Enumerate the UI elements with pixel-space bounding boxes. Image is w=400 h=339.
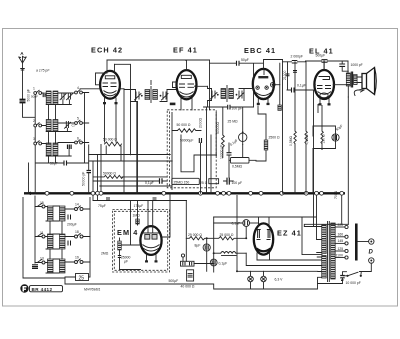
svg-text:110V: 110V	[336, 253, 344, 257]
transformer left connections	[304, 224, 348, 226]
EM4 shield dashed box	[113, 210, 170, 273]
resistor 0,5M ohm vertical (AVC line)	[289, 90, 297, 193]
svg-text:M/4769/B1: M/4769/B1	[84, 288, 101, 292]
capacitor 50pF	[36, 161, 88, 166]
heater winding	[322, 256, 327, 279]
svg-text:µF: µF	[124, 260, 128, 264]
bottom heater return lines	[65, 277, 322, 289]
filter choke	[214, 252, 247, 256]
svg-text:BR 4412: BR 4412	[32, 287, 53, 292]
switch row 2	[33, 119, 42, 127]
svg-text:19: 19	[75, 256, 79, 260]
capacitor 500uF (EL41 grid top)	[306, 54, 349, 63]
lower waveband coil block	[23, 196, 90, 284]
coil L5	[46, 143, 51, 156]
antenna A	[19, 51, 26, 99]
svg-text:1: 1	[33, 87, 35, 91]
svg-text:EL 41: EL 41	[309, 47, 334, 56]
capacitor 100uF (cathode)	[224, 178, 243, 185]
full-wave rectifier tube EZ41	[254, 218, 273, 261]
vertical feeders below bus	[23, 196, 65, 284]
svg-text:14: 14	[75, 203, 79, 207]
svg-text:50000Ω: 50000Ω	[216, 122, 220, 134]
trimmer right	[238, 91, 245, 99]
main ground bus	[24, 192, 345, 194]
svg-text:D: D	[369, 250, 374, 256]
loudspeaker	[354, 68, 376, 96]
svg-text:6: 6	[77, 137, 79, 141]
svg-text:10000 µF: 10000 µF	[220, 145, 224, 159]
potentiometer block component	[181, 257, 214, 266]
capacitor 100uF (IF2)	[204, 105, 254, 111]
pilot lamp 1	[248, 271, 254, 289]
IF transformer 2	[196, 86, 253, 108]
terminal circle DM	[181, 254, 184, 257]
coil L4	[53, 120, 58, 132]
capacitor 8uF circled	[195, 244, 211, 252]
svg-text:25: 25	[79, 276, 85, 282]
coil L10	[60, 234, 66, 249]
svg-text:a 175 pF: a 175 pF	[36, 69, 50, 73]
double-diode-triode tube EBC41	[253, 69, 282, 111]
capacitor block row3	[68, 145, 72, 150]
heater 6.3V line	[236, 196, 318, 282]
coil L9	[48, 234, 54, 249]
svg-text:2: 2	[33, 119, 35, 123]
capacitor 2000pF + label	[283, 55, 306, 194]
resistor box 25 (bottom left)	[65, 262, 90, 282]
bottom-left maker logo	[20, 284, 62, 292]
HT line y=217	[214, 196, 322, 255]
svg-text:50 000 Ω: 50 000 Ω	[103, 138, 117, 142]
antenna series capacitor 5000pF	[20, 89, 36, 117]
coil L6	[53, 143, 58, 156]
coil L8	[60, 206, 66, 221]
output transformer	[324, 61, 357, 97]
coil L12	[60, 259, 66, 273]
resistor 0,5M ohm vertical (EL41 grid leak)	[305, 61, 309, 193]
svg-text:25 MΩ: 25 MΩ	[228, 120, 239, 124]
svg-text:2500 Ω: 2500 Ω	[269, 136, 280, 140]
capacitor 175uF	[134, 198, 157, 208]
svg-text:18: 18	[75, 230, 79, 234]
svg-text:700Ω: 700Ω	[334, 190, 338, 199]
switch row 3	[33, 137, 42, 145]
svg-text:0,5MΩ: 0,5MΩ	[232, 165, 243, 169]
trimmer cap row2	[65, 122, 71, 129]
capacitor 0,1uF horizontal (at 290,90)	[287, 84, 313, 93]
svg-text:2000Ω: 2000Ω	[199, 117, 203, 128]
resistor 1M ohm (EM4 grid)	[133, 214, 141, 226]
svg-text:75µF: 75µF	[98, 204, 106, 208]
svg-text:50000µF: 50000µF	[180, 139, 193, 143]
svg-text:40 000 Ω: 40 000 Ω	[181, 284, 195, 288]
magic eye tube EM4	[120, 201, 162, 263]
wire EL41 screen down	[313, 90, 318, 227]
pentode tube EF41	[170, 61, 197, 110]
svg-text:1MΩ: 1MΩ	[133, 214, 141, 218]
top wire line B (osc grid)	[115, 64, 131, 155]
svg-text:ECH 42: ECH 42	[91, 46, 123, 55]
coil L7	[48, 206, 54, 221]
svg-text:25 000 Ω: 25 000 Ω	[220, 233, 234, 237]
capacitor 50000pF (osc)	[180, 138, 202, 143]
svg-text:8µF: 8µF	[195, 244, 201, 248]
mains terminal 1	[369, 239, 374, 244]
wire speaker/OT to mains transformer	[347, 97, 349, 224]
capacitor 50000pF	[82, 145, 92, 193]
pilot lamp 2	[261, 271, 267, 289]
svg-text:5: 5	[77, 117, 79, 121]
svg-text:125: 125	[338, 247, 344, 251]
capacitor 0,1uF circled lower	[210, 259, 227, 266]
core	[226, 86, 228, 102]
upper waveband coil block	[31, 86, 89, 193]
EZ41 output lines to transformer	[246, 253, 325, 265]
resistor 150 ohm (EL41 cathode)	[321, 106, 326, 150]
voltage selector bar	[355, 224, 369, 261]
resistor 50000 ohm (ECH42 cathode)	[103, 138, 121, 162]
resistor 50000 ohm (osc)	[172, 123, 201, 132]
switch row 1	[33, 87, 42, 95]
capacitor 0,1uF (AVC)	[93, 178, 167, 185]
coil L3	[46, 120, 51, 132]
oscillator dashed shield box	[167, 110, 216, 188]
capacitor 0,1uF circled (EZ41 plate)	[214, 220, 259, 227]
mid horizontal wires to oscillator	[89, 155, 173, 187]
trimmer cap row1 b	[67, 93, 73, 100]
wire ECH42 grid to coil block	[80, 73, 107, 89]
mains transformer	[317, 222, 336, 282]
oscillator inner box	[171, 113, 173, 190]
svg-text:EBC 41: EBC 41	[244, 46, 276, 55]
svg-text:2 000pF: 2 000pF	[291, 55, 303, 59]
speaker magnet yoke	[354, 90, 364, 96]
svg-text:6,3 V: 6,3 V	[275, 278, 284, 282]
trimmer right	[162, 92, 169, 100]
capacitor 25000uF (EM4)	[118, 201, 141, 270]
bus taper left end	[24, 192, 31, 195]
svg-text:4: 4	[77, 86, 79, 90]
capacitor 1000pF (tone)	[339, 61, 362, 71]
svg-text:0,1µF: 0,1µF	[232, 222, 241, 226]
svg-text:25MΩ 150: 25MΩ 150	[174, 180, 190, 184]
HT secondary winding	[322, 225, 327, 254]
secondary coil	[153, 90, 158, 100]
resistor 2M ohm (EM4)	[101, 238, 121, 256]
wire ECH42 cathode column	[105, 104, 117, 142]
resistor box 25Mohm+150 (osc grid leak)	[172, 178, 200, 184]
svg-text:50000 pF: 50000 pF	[82, 172, 86, 186]
primary taps	[335, 223, 348, 259]
coil L2	[53, 91, 58, 104]
resistor 0,5M ohm box	[229, 158, 256, 169]
resistor 2500 ohm vertical	[256, 106, 280, 161]
junction dots B+ line	[206, 237, 208, 239]
output pentode tube EL41	[314, 61, 349, 106]
resistor 50000 ohm vertical rotated	[216, 107, 224, 158]
svg-text:500µF: 500µF	[169, 279, 179, 283]
vertical wires left-mid to bus	[93, 145, 101, 201]
IF transformer 1	[124, 81, 176, 193]
svg-text:50pF: 50pF	[50, 162, 58, 166]
core	[328, 222, 330, 282]
capacitor 50uF (EBC top line)	[210, 58, 283, 107]
coil L11	[48, 259, 54, 273]
trimmer left	[211, 91, 218, 99]
svg-text:0,1µF: 0,1µF	[219, 262, 228, 266]
svg-text:3: 3	[33, 137, 35, 141]
svg-text:50µF: 50µF	[31, 95, 38, 99]
bus junction small circles left	[45, 191, 103, 195]
svg-text:0,1µF: 0,1µF	[297, 84, 306, 88]
resistor 50000 ohm lower label	[93, 172, 167, 179]
svg-text:EZ 41: EZ 41	[277, 229, 302, 238]
primary coil	[145, 90, 150, 100]
capacitor 10000uF rotated	[220, 143, 232, 178]
resistor 25 ohm	[200, 179, 219, 185]
EL41 cathode bypass box + cap 50uF	[313, 124, 344, 149]
capacitor 10000pF (mains)	[318, 272, 361, 285]
primary winding	[331, 223, 336, 279]
svg-text:160: 160	[338, 233, 344, 237]
block wiring	[42, 93, 89, 144]
electrolytic capacitor block	[169, 270, 195, 289]
heater line caps 75uF	[93, 198, 187, 208]
winding stub connections left	[317, 227, 322, 278]
mains switch	[343, 263, 371, 277]
capacitor 50uF row1	[43, 93, 45, 98]
resistor 2000 ohm vertical (diode load)	[199, 107, 207, 193]
svg-text:0,5MΩ: 0,5MΩ	[289, 135, 293, 146]
svg-text:29 000 Ω: 29 000 Ω	[188, 233, 202, 237]
svg-text:10 000 pF: 10 000 pF	[346, 281, 361, 285]
svg-text:EM 4: EM 4	[117, 228, 138, 237]
vertical feeders around EM4/EZ41	[186, 201, 246, 273]
wire: antenna coil common down to bus	[28, 163, 30, 193]
svg-text:200µF: 200µF	[67, 223, 77, 227]
EM4 target supply wiring	[162, 193, 171, 237]
coil L1	[46, 91, 51, 104]
svg-text:21000: 21000	[283, 70, 287, 80]
trimmer cap row1 a	[60, 93, 66, 100]
mains terminal 2	[369, 258, 374, 263]
svg-text:2MΩ: 2MΩ	[101, 252, 109, 256]
bus junction circles right	[162, 191, 344, 195]
top wire line A (ECH42 anode to EBC41)	[107, 59, 210, 62]
svg-text:100 µF: 100 µF	[232, 181, 243, 185]
triode-hexode tube ECH42	[100, 60, 124, 104]
B+ line y=238 with resistors	[186, 233, 246, 240]
svg-text:145: 145	[338, 239, 344, 243]
svg-text:220: 220	[338, 223, 344, 227]
secondary coil	[229, 89, 234, 99]
svg-text:1000 pF: 1000 pF	[351, 63, 363, 67]
core	[150, 87, 152, 103]
trimmer left	[135, 92, 142, 100]
svg-text:50 000 Ω: 50 000 Ω	[177, 123, 191, 127]
EBC41 plate coupling right	[279, 63, 281, 105]
volume potentiometer	[229, 107, 247, 158]
svg-text:EF 41: EF 41	[173, 46, 198, 55]
svg-text:175µF: 175µF	[134, 204, 144, 208]
primary coil	[221, 89, 226, 99]
wire verticals ECH42 right	[124, 89, 137, 194]
svg-text:50µF: 50µF	[241, 58, 249, 62]
block wiring	[45, 206, 90, 263]
svg-text:5000 pF: 5000 pF	[27, 89, 31, 101]
oscillator wiring staircase	[181, 113, 217, 194]
